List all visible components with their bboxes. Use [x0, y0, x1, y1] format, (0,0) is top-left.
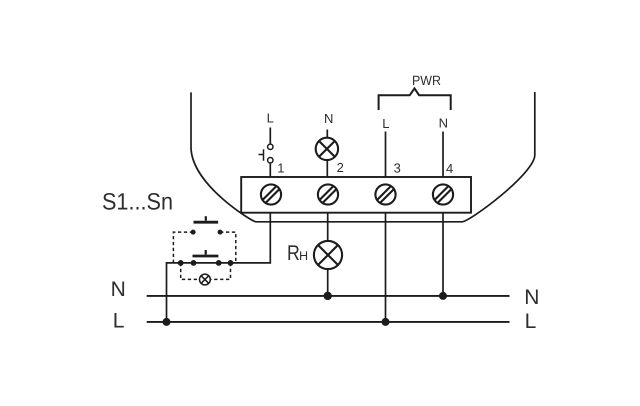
- svg-text:S1...Sn: S1...Sn: [102, 190, 173, 216]
- svg-text:4: 4: [446, 161, 453, 176]
- svg-text:H: H: [299, 249, 308, 263]
- svg-text:N: N: [524, 286, 539, 309]
- svg-text:L: L: [525, 310, 537, 333]
- svg-text:3: 3: [394, 160, 401, 175]
- svg-text:L: L: [382, 116, 389, 131]
- svg-text:R: R: [287, 241, 300, 265]
- svg-text:N: N: [439, 116, 448, 131]
- svg-text:PWR: PWR: [412, 73, 441, 88]
- svg-text:2: 2: [337, 160, 344, 175]
- svg-text:N: N: [111, 278, 126, 301]
- svg-text:1: 1: [277, 160, 284, 175]
- svg-text:N: N: [324, 111, 333, 126]
- svg-text:L: L: [113, 309, 125, 332]
- svg-text:L: L: [267, 110, 274, 125]
